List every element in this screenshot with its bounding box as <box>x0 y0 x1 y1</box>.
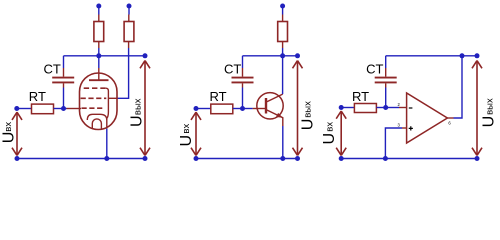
svg-text:вых: вых <box>133 98 144 115</box>
svg-text:вых: вых <box>484 98 495 115</box>
wire <box>128 6 130 15</box>
tube V1 heater <box>92 119 101 129</box>
svg-text:6: 6 <box>448 120 451 125</box>
tube V1 anode <box>89 79 109 81</box>
resistor Ra1 lead <box>98 15 100 49</box>
node output bottom <box>295 156 300 161</box>
op-amp U1 inverting pin lead <box>399 107 407 109</box>
wire top rail <box>243 55 298 57</box>
op-amp U1 minus sign <box>409 107 413 109</box>
node output bottom <box>143 156 148 161</box>
resistor Rk lead <box>282 15 284 49</box>
wire collector riser <box>282 56 284 94</box>
wire output riser <box>454 56 463 118</box>
node output junction <box>460 53 465 58</box>
tube V1 suppressor grid <box>84 87 106 89</box>
tube V1 cathode <box>87 114 107 120</box>
op-amp U1 triangle <box>407 93 448 143</box>
resistor RT <box>32 104 54 114</box>
node bottom left <box>339 156 344 161</box>
capacitor CT plates <box>375 78 397 83</box>
resistor Ra2 lead <box>128 15 130 49</box>
svg-text:вх: вх <box>3 122 14 132</box>
op-amp U1 plus sign <box>409 126 413 130</box>
resistor Rk top terminal node <box>280 4 285 9</box>
node ground junction <box>383 156 388 161</box>
arrow Uvyx (output voltage) <box>140 61 150 156</box>
wire <box>282 48 284 56</box>
wire RT to grid node <box>54 108 64 110</box>
transistor VT1 base bar <box>265 98 267 114</box>
resistor Ra2 <box>124 22 134 42</box>
svg-text:U: U <box>1 132 18 144</box>
node input terminal <box>194 106 199 111</box>
tube V1 control grid <box>82 107 103 109</box>
svg-text:RT: RT <box>210 89 227 104</box>
resistor RT <box>354 104 376 113</box>
svg-text:CT: CT <box>224 61 241 76</box>
wire <box>282 6 284 15</box>
wire anode to rail <box>98 56 100 68</box>
wire inverting input <box>386 107 399 109</box>
wire rail corner to capacitor <box>242 56 244 68</box>
svg-text:U: U <box>178 135 195 147</box>
svg-text:U: U <box>321 133 338 145</box>
wire capacitor to grid node <box>63 88 65 109</box>
wire RT to inverting node <box>376 107 385 109</box>
resistor Ra2 top terminal node <box>127 4 132 9</box>
node anode junction <box>96 53 101 58</box>
arrow Uvyx (output voltage) <box>472 61 482 156</box>
tube V1 anode lead <box>98 68 100 80</box>
wire top rail <box>64 55 146 57</box>
node collector junction <box>280 53 285 58</box>
op-amp U1 output lead <box>447 117 453 119</box>
wire <box>98 6 100 15</box>
wire bottom rail <box>17 158 145 160</box>
svg-text:3: 3 <box>398 123 401 128</box>
wire RT to base node <box>233 108 243 110</box>
wire <box>98 48 100 56</box>
svg-text:CT: CT <box>366 61 383 76</box>
node bottom left <box>15 156 20 161</box>
capacitor CT plates <box>232 78 254 83</box>
svg-text:2: 2 <box>398 102 401 107</box>
capacitor CT lead <box>385 68 387 88</box>
transistor VT1 base lead <box>253 108 265 110</box>
wire base <box>243 108 253 110</box>
tube V1 grid lead <box>67 108 82 110</box>
wire bottom rail <box>196 158 298 160</box>
capacitor CT lead <box>63 68 65 88</box>
op-amp U1 non-inverting pin lead <box>402 127 407 129</box>
svg-text:CT: CT <box>43 61 60 76</box>
wire capacitor to base node <box>242 88 244 109</box>
svg-text:вх: вх <box>324 122 335 132</box>
wire input to RT <box>341 107 354 109</box>
wire top rail (feedback) <box>386 55 477 57</box>
transistor VT1 collector <box>267 94 283 102</box>
node output top <box>143 53 148 58</box>
svg-text:RT: RT <box>352 89 369 104</box>
resistor Ra1 <box>94 22 104 42</box>
tube V1 screen grid <box>81 97 107 99</box>
svg-text:U: U <box>300 119 317 131</box>
wire input to RT <box>196 108 211 110</box>
arrow Uvx (input voltage) <box>12 112 22 155</box>
transistor VT1 circle <box>257 93 283 119</box>
node input terminal <box>339 105 344 110</box>
node output bottom <box>475 156 480 161</box>
wire emitter to bottom rail <box>282 126 284 159</box>
tube V1 suppressor-to-cathode lead <box>106 88 109 129</box>
node inverting junction <box>383 105 388 110</box>
node output top <box>475 53 480 58</box>
wire screen-grid riser (crosses rail, no junction) <box>117 48 129 98</box>
resistor RT <box>211 104 233 114</box>
wire cathode to bottom rail <box>106 129 108 159</box>
node cathode bottom <box>104 156 109 161</box>
wire grid lead <box>64 108 67 110</box>
transistor VT1 emitter <box>267 110 283 126</box>
wire rail corner to capacitor <box>385 56 387 68</box>
capacitor CT plates <box>52 78 74 83</box>
wire non-inverting to ground <box>385 128 402 159</box>
node grid junction <box>61 106 66 111</box>
svg-text:вых: вых <box>303 101 314 118</box>
tube V1 envelope <box>80 73 118 130</box>
transistor VT1 emitter arrowhead <box>276 113 283 118</box>
wire bottom rail <box>341 158 477 160</box>
node input terminal <box>14 106 19 111</box>
node base junction <box>240 106 245 111</box>
capacitor CT lead <box>242 68 244 88</box>
wire capacitor to inverting node <box>385 88 387 108</box>
tube V1 screen lead <box>109 97 117 99</box>
wire input to RT <box>17 108 32 110</box>
svg-text:вх: вх <box>181 124 192 134</box>
svg-text:U: U <box>128 115 145 127</box>
svg-text:RT: RT <box>29 89 46 104</box>
node emitter bottom <box>280 156 285 161</box>
node output top <box>295 53 300 58</box>
resistor Rk <box>278 22 288 42</box>
svg-text:U: U <box>481 116 498 128</box>
resistor Ra1 top terminal node <box>96 4 101 9</box>
arrow Uvyx (output voltage) <box>293 61 303 156</box>
node bottom left <box>194 156 199 161</box>
arrow Uvx (input voltage) <box>191 112 201 155</box>
wire rail corner to capacitor <box>63 56 65 68</box>
arrow Uvx (input voltage) <box>336 111 346 155</box>
